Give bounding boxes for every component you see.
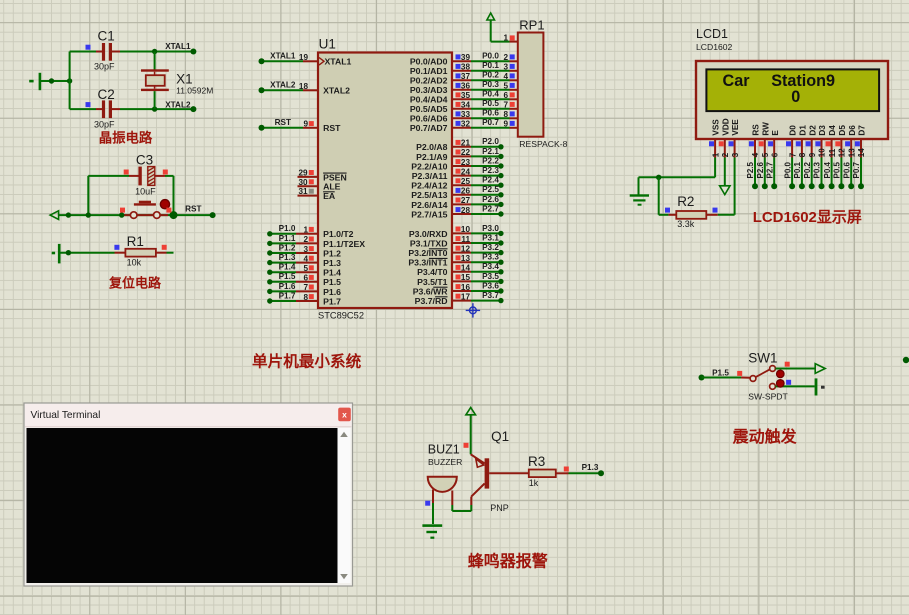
svg-text:RS: RS	[752, 124, 761, 136]
svg-text:37: 37	[461, 72, 471, 81]
svg-text:P3.2/INT0: P3.2/INT0	[408, 248, 447, 258]
svg-text:31: 31	[298, 187, 308, 196]
svg-text:P3.1: P3.1	[482, 233, 499, 242]
svg-text:35: 35	[461, 91, 471, 100]
svg-text:1: 1	[711, 152, 720, 157]
svg-text:P0.2/AD2: P0.2/AD2	[410, 76, 448, 86]
svg-text:P1.2: P1.2	[279, 243, 296, 252]
svg-text:29: 29	[298, 169, 308, 178]
svg-text:P1.5: P1.5	[323, 277, 341, 287]
svg-text:14: 14	[857, 148, 866, 157]
svg-text:XTAL2: XTAL2	[323, 86, 350, 96]
svg-text:7: 7	[503, 101, 508, 110]
svg-text:6: 6	[503, 91, 508, 100]
svg-text:P1.6: P1.6	[279, 282, 296, 291]
svg-text:P3.7: P3.7	[482, 291, 499, 300]
svg-text:P1.0: P1.0	[279, 224, 296, 233]
svg-text:C2: C2	[98, 87, 115, 102]
svg-text:9: 9	[303, 120, 308, 129]
svg-text:VSS: VSS	[712, 119, 721, 136]
svg-text:33: 33	[461, 110, 471, 119]
svg-text:P0.6/AD6: P0.6/AD6	[410, 114, 448, 124]
svg-text:XTAL1: XTAL1	[325, 57, 352, 67]
svg-text:P0.4/AD4: P0.4/AD4	[410, 95, 448, 105]
svg-text:D3: D3	[818, 125, 827, 136]
svg-text:30pF: 30pF	[94, 62, 115, 72]
svg-text:3: 3	[303, 245, 308, 254]
svg-text:BUZZER: BUZZER	[428, 457, 462, 467]
svg-text:P1.1: P1.1	[279, 234, 296, 243]
svg-text:9: 9	[808, 152, 817, 157]
svg-text:P0.2: P0.2	[803, 161, 812, 178]
svg-text:2: 2	[721, 152, 730, 157]
svg-text:P0.4: P0.4	[482, 90, 499, 99]
svg-text:P2.3: P2.3	[482, 166, 499, 175]
svg-text:R1: R1	[127, 234, 144, 249]
svg-text:D5: D5	[838, 125, 847, 136]
svg-text:XTAL1: XTAL1	[165, 42, 191, 51]
svg-text:P0.0/AD0: P0.0/AD0	[410, 57, 448, 67]
svg-text:5: 5	[503, 82, 508, 91]
svg-text:36: 36	[461, 82, 471, 91]
svg-text:P1.0/T2: P1.0/T2	[323, 229, 354, 239]
svg-text:BUZ1: BUZ1	[428, 442, 460, 456]
svg-text:P3.6: P3.6	[482, 281, 499, 290]
svg-text:P3.3/INT1: P3.3/INT1	[408, 258, 447, 268]
svg-text:D7: D7	[858, 125, 867, 136]
svg-text:1k: 1k	[529, 478, 539, 488]
svg-text:P2.4/A12: P2.4/A12	[411, 181, 447, 191]
svg-text:3: 3	[503, 63, 508, 72]
svg-text:P1.2: P1.2	[323, 248, 341, 258]
svg-text:0: 0	[791, 88, 800, 106]
svg-text:P1.6: P1.6	[323, 287, 341, 297]
svg-text:21: 21	[461, 139, 471, 148]
svg-text:P3.0/RXD: P3.0/RXD	[409, 229, 448, 239]
svg-text:6: 6	[303, 274, 308, 283]
svg-text:P3.5: P3.5	[482, 272, 499, 281]
svg-text:5: 5	[303, 264, 308, 273]
svg-text:晶振电路: 晶振电路	[99, 130, 153, 146]
svg-text:3: 3	[731, 152, 740, 157]
svg-text:P3.3: P3.3	[482, 253, 499, 262]
svg-text:P2.6/A14: P2.6/A14	[411, 200, 447, 210]
svg-text:P3.5/T1: P3.5/T1	[417, 277, 448, 287]
svg-text:STC89C52: STC89C52	[318, 311, 364, 321]
svg-text:8: 8	[798, 152, 807, 157]
svg-text:10k: 10k	[127, 258, 142, 268]
svg-text:R2: R2	[677, 194, 694, 209]
svg-text:P1.7: P1.7	[279, 291, 296, 300]
svg-text:U1: U1	[319, 37, 336, 52]
svg-text:P0.7: P0.7	[852, 161, 861, 178]
svg-text:2: 2	[503, 53, 508, 62]
svg-text:RST: RST	[185, 204, 201, 213]
svg-text:P1.5: P1.5	[279, 272, 296, 281]
svg-text:D1: D1	[799, 125, 808, 136]
svg-text:30pF: 30pF	[94, 120, 115, 130]
svg-text:39: 39	[461, 53, 471, 62]
svg-text:XTAL1: XTAL1	[270, 52, 296, 61]
svg-text:8: 8	[503, 110, 508, 119]
svg-text:P1.7: P1.7	[323, 296, 341, 306]
svg-text:D6: D6	[848, 125, 857, 136]
svg-text:P0.3: P0.3	[813, 161, 822, 178]
svg-text:P0.0: P0.0	[783, 161, 792, 178]
svg-text:LCD1602显示屏: LCD1602显示屏	[753, 209, 862, 226]
svg-text:34: 34	[461, 101, 471, 110]
svg-text:P0.7/AD7: P0.7/AD7	[410, 123, 448, 133]
svg-text:1: 1	[303, 226, 308, 235]
svg-text:X1: X1	[176, 71, 193, 86]
svg-text:P0.7: P0.7	[482, 118, 499, 127]
svg-text:11: 11	[461, 235, 470, 244]
svg-text:P0.4: P0.4	[823, 161, 832, 178]
svg-text:P3.1/TXD: P3.1/TXD	[410, 238, 448, 248]
svg-text:11: 11	[828, 148, 837, 157]
svg-text:XTAL2: XTAL2	[270, 81, 296, 90]
svg-text:P2.2/A10: P2.2/A10	[411, 161, 447, 171]
svg-text:27: 27	[461, 196, 471, 205]
svg-text:EA: EA	[323, 191, 336, 201]
svg-text:7: 7	[303, 283, 308, 292]
svg-text:P2.0/A8: P2.0/A8	[416, 142, 448, 152]
svg-text:6: 6	[770, 152, 779, 157]
svg-text:30: 30	[298, 178, 308, 187]
svg-text:P2.7: P2.7	[765, 161, 774, 178]
svg-text:P0.6: P0.6	[842, 161, 851, 178]
svg-text:Virtual Terminal: Virtual Terminal	[31, 410, 101, 421]
svg-text:P0.1: P0.1	[793, 161, 802, 178]
svg-text:17: 17	[461, 292, 471, 301]
svg-text:P3.0: P3.0	[482, 224, 499, 233]
svg-text:P2.5/A13: P2.5/A13	[411, 190, 447, 200]
svg-text:5: 5	[761, 152, 770, 157]
svg-text:13: 13	[461, 254, 471, 263]
svg-text:P0.3: P0.3	[482, 80, 499, 89]
svg-text:10: 10	[818, 148, 827, 157]
svg-text:P3.7/RD: P3.7/RD	[415, 296, 448, 306]
svg-text:28: 28	[461, 206, 471, 215]
svg-text:P3.4: P3.4	[482, 262, 499, 271]
svg-text:D4: D4	[828, 125, 837, 136]
svg-text:D2: D2	[808, 125, 817, 136]
svg-text:P0.1/AD1: P0.1/AD1	[410, 66, 448, 76]
svg-text:P1.3: P1.3	[582, 463, 599, 472]
svg-text:震动触发: 震动触发	[732, 427, 798, 446]
svg-text:P2.1/A9: P2.1/A9	[416, 152, 448, 162]
svg-text:P1.4: P1.4	[279, 263, 296, 272]
svg-text:P2.2: P2.2	[482, 156, 499, 165]
svg-text:10uF: 10uF	[135, 187, 156, 197]
svg-text:LCD1: LCD1	[696, 27, 728, 41]
svg-text:P3.2: P3.2	[482, 243, 499, 252]
svg-text:23: 23	[461, 158, 471, 167]
svg-text:P1.3: P1.3	[279, 253, 296, 262]
svg-text:P0.5: P0.5	[833, 161, 842, 178]
svg-text:P0.5/AD5: P0.5/AD5	[410, 104, 448, 114]
svg-text:11.0592M: 11.0592M	[176, 85, 213, 95]
svg-text:XTAL2: XTAL2	[165, 100, 191, 109]
svg-text:P2.1: P2.1	[482, 147, 499, 156]
svg-text:32: 32	[461, 120, 471, 129]
svg-text:R3: R3	[528, 454, 545, 469]
svg-text:P2.4: P2.4	[482, 176, 499, 185]
svg-text:P2.6: P2.6	[756, 161, 765, 178]
svg-text:Q1: Q1	[491, 429, 509, 444]
svg-text:26: 26	[461, 187, 471, 196]
svg-text:4: 4	[303, 254, 308, 263]
svg-text:单片机最小系统: 单片机最小系统	[252, 352, 362, 371]
svg-text:RP1: RP1	[519, 18, 544, 33]
svg-text:C3: C3	[136, 153, 153, 168]
svg-text:P2.7/A15: P2.7/A15	[411, 209, 447, 219]
svg-text:E: E	[771, 130, 780, 136]
svg-text:Car: Car	[723, 72, 751, 90]
svg-text:VEE: VEE	[731, 119, 740, 136]
svg-text:SW-SPDT: SW-SPDT	[748, 392, 788, 402]
svg-text:P0.1: P0.1	[482, 61, 499, 70]
svg-text:LCD1602: LCD1602	[696, 42, 733, 52]
svg-text:3.3k: 3.3k	[677, 219, 695, 229]
svg-text:P2.5: P2.5	[482, 185, 499, 194]
svg-text:4: 4	[751, 152, 760, 157]
svg-text:P1.1/T2EX: P1.1/T2EX	[323, 239, 365, 249]
svg-text:P1.3: P1.3	[323, 258, 341, 268]
svg-text:PNP: PNP	[490, 503, 509, 513]
svg-text:C1: C1	[98, 29, 115, 44]
svg-text:2: 2	[303, 235, 308, 244]
svg-text:14: 14	[461, 264, 471, 273]
svg-text:15: 15	[461, 273, 471, 282]
svg-text:P2.3/A11: P2.3/A11	[412, 171, 448, 181]
svg-text:1: 1	[503, 33, 508, 42]
svg-text:19: 19	[299, 53, 309, 62]
svg-text:9: 9	[503, 120, 508, 129]
svg-text:12: 12	[838, 148, 847, 157]
svg-text:复位电路: 复位电路	[108, 275, 162, 290]
svg-text:P0.5: P0.5	[482, 99, 499, 108]
svg-text:38: 38	[461, 63, 471, 72]
svg-text:P0.2: P0.2	[482, 71, 499, 80]
svg-text:P0.6: P0.6	[482, 109, 499, 118]
svg-text:蜂鸣器报警: 蜂鸣器报警	[468, 552, 548, 571]
svg-text:P3.4/T0: P3.4/T0	[417, 267, 448, 277]
svg-text:RST: RST	[275, 118, 291, 127]
svg-text:7: 7	[788, 152, 797, 157]
svg-text:RESPACK-8: RESPACK-8	[519, 139, 567, 149]
svg-text:VDD: VDD	[721, 118, 730, 135]
svg-text:P2.6: P2.6	[482, 195, 499, 204]
svg-text:10: 10	[461, 225, 471, 234]
svg-text:Station9: Station9	[771, 72, 835, 90]
svg-text:P0.3/AD3: P0.3/AD3	[410, 85, 448, 95]
svg-text:4: 4	[503, 72, 508, 81]
svg-text:13: 13	[847, 148, 856, 157]
svg-text:18: 18	[299, 82, 309, 91]
svg-text:RST: RST	[323, 123, 341, 133]
svg-text:P1.5: P1.5	[712, 368, 729, 377]
svg-text:RW: RW	[761, 122, 770, 136]
svg-text:8: 8	[303, 293, 308, 302]
svg-text:P2.0: P2.0	[482, 137, 499, 146]
svg-text:SW1: SW1	[748, 351, 777, 366]
svg-text:P3.6/WR: P3.6/WR	[413, 286, 448, 296]
svg-text:P1.4: P1.4	[323, 268, 341, 278]
svg-text:P2.7: P2.7	[482, 204, 499, 213]
svg-text:P0.0: P0.0	[482, 52, 499, 61]
svg-text:D0: D0	[789, 125, 798, 136]
svg-text:25: 25	[461, 177, 471, 186]
svg-text:x: x	[342, 410, 347, 420]
svg-text:22: 22	[461, 148, 471, 157]
svg-text:12: 12	[461, 244, 471, 253]
svg-text:P2.5: P2.5	[746, 161, 755, 178]
svg-text:24: 24	[461, 167, 471, 176]
svg-text:16: 16	[461, 283, 471, 292]
